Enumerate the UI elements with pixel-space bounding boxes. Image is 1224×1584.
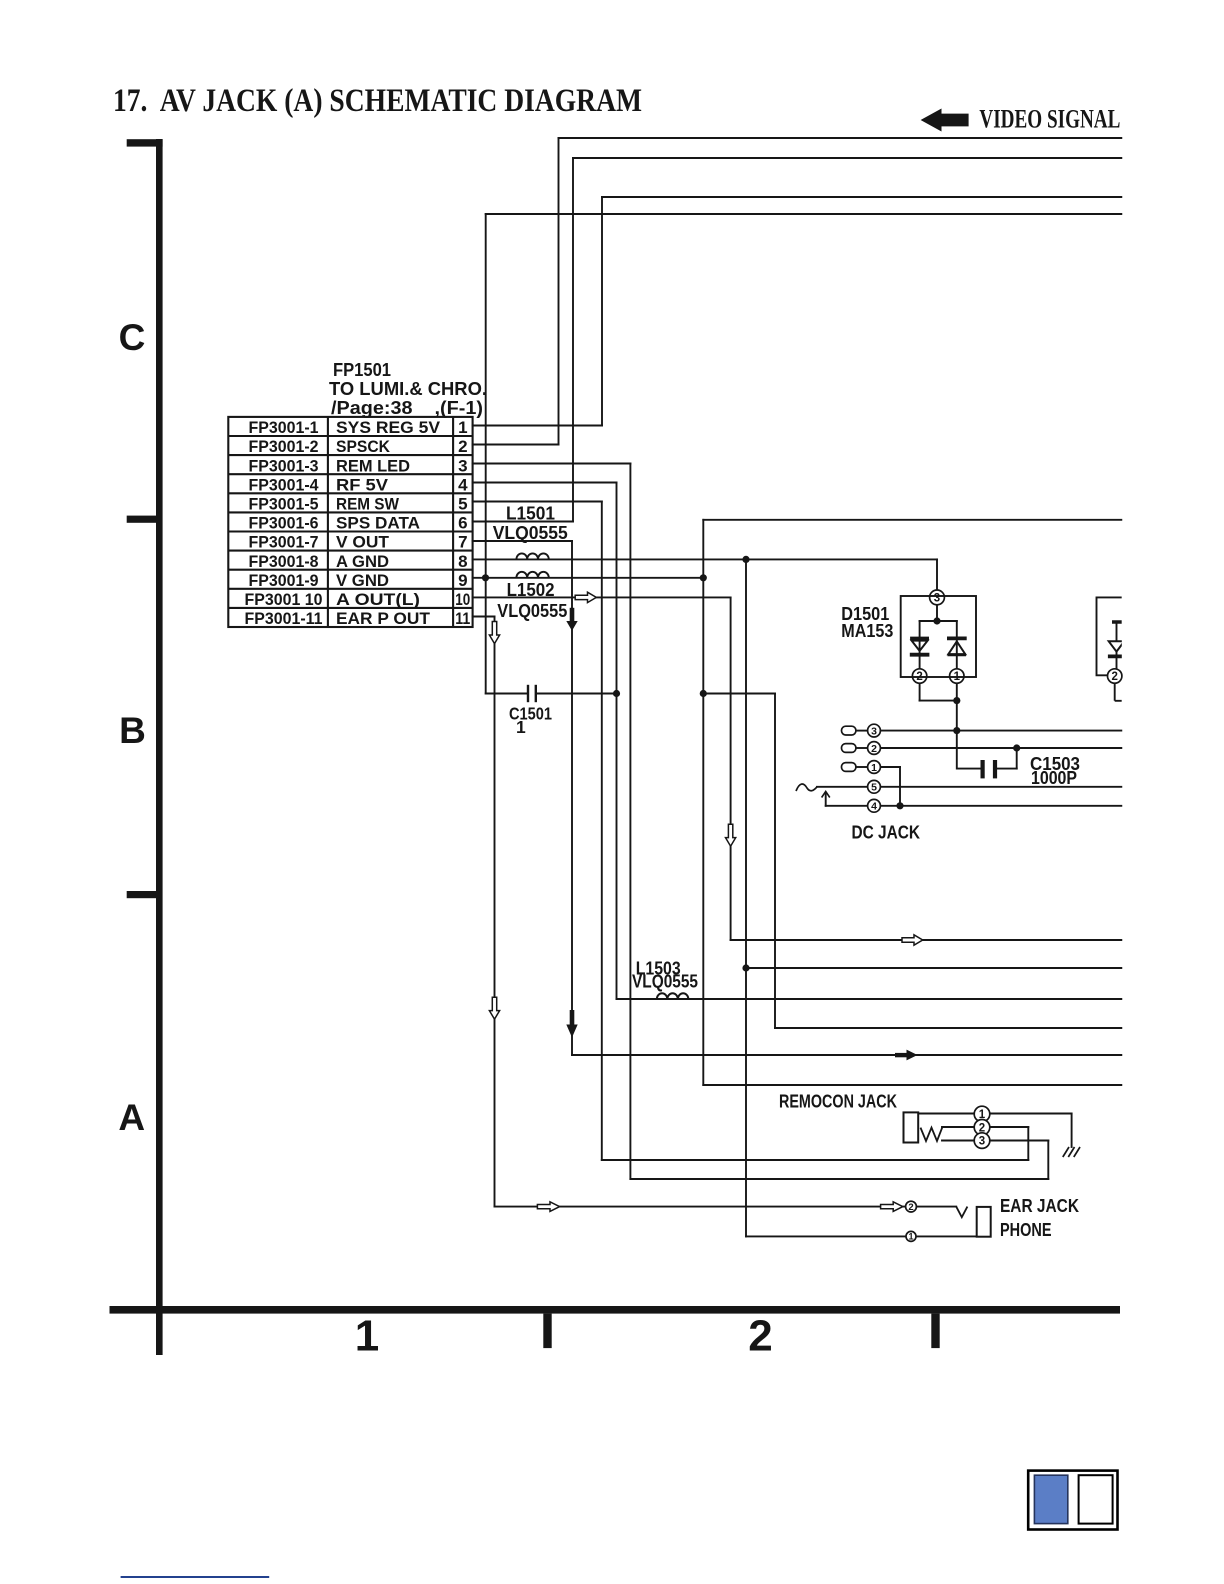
svg-text:DC JACK: DC JACK [852, 821, 921, 842]
svg-text:FP3001-5: FP3001-5 [249, 495, 319, 514]
svg-text:FP3001-7: FP3001-7 [249, 533, 319, 552]
svg-text:FP3001-2: FP3001-2 [249, 437, 319, 456]
svg-text:VLQ0555: VLQ0555 [493, 523, 568, 543]
svg-text:FP3001-4: FP3001-4 [249, 475, 319, 494]
svg-text:SPS DATA: SPS DATA [336, 514, 420, 533]
svg-text:6: 6 [458, 514, 467, 533]
svg-text:L1501: L1501 [506, 503, 555, 523]
svg-text:2: 2 [748, 1312, 772, 1361]
svg-text:V GND: V GND [336, 571, 389, 590]
svg-text:RF 5V: RF 5V [336, 475, 389, 494]
svg-text:2: 2 [1111, 671, 1117, 683]
svg-text:L1502: L1502 [507, 580, 555, 600]
svg-text:1: 1 [458, 418, 467, 437]
svg-text:9: 9 [458, 571, 467, 590]
svg-text:SYS REG 5V: SYS REG 5V [336, 418, 441, 437]
svg-text:FP3001-3: FP3001-3 [249, 456, 319, 475]
svg-text:1: 1 [516, 717, 526, 737]
svg-text:2: 2 [871, 743, 877, 755]
svg-text:FP3001 10: FP3001 10 [245, 590, 323, 609]
svg-text:FP3001-9: FP3001-9 [249, 571, 319, 590]
svg-text:8: 8 [458, 552, 467, 571]
svg-text:2: 2 [458, 437, 467, 456]
svg-text:V OUT: V OUT [336, 533, 390, 552]
svg-text:1: 1 [355, 1312, 379, 1361]
svg-text:3: 3 [979, 1136, 985, 1148]
svg-text:3: 3 [871, 725, 877, 737]
svg-text:7: 7 [458, 533, 467, 552]
svg-text:REM LED: REM LED [336, 456, 410, 475]
svg-text:PHONE: PHONE [1000, 1219, 1052, 1240]
svg-text:REM SW: REM SW [336, 495, 400, 514]
svg-text:VLQ0555: VLQ0555 [497, 601, 567, 621]
svg-text:A OUT(L): A OUT(L) [336, 590, 420, 609]
svg-text:5: 5 [871, 782, 877, 794]
svg-text:REMOCON JACK: REMOCON JACK [779, 1090, 897, 1111]
svg-text:1: 1 [908, 1232, 913, 1242]
svg-text:1: 1 [871, 762, 877, 774]
svg-text:FP1501: FP1501 [333, 359, 391, 380]
svg-text:FP3001-8: FP3001-8 [249, 552, 319, 571]
svg-text:C: C [119, 317, 146, 358]
svg-text:17. AV JACK (A) SCHEMATIC DIA: 17. AV JACK (A) SCHEMATIC DIAGRAM [113, 83, 642, 119]
svg-text:A GND: A GND [336, 552, 389, 571]
svg-text:VIDEO SIGNAL: VIDEO SIGNAL [979, 105, 1120, 134]
svg-text:VLQ0555: VLQ0555 [632, 972, 698, 992]
svg-text:MA153: MA153 [841, 621, 893, 641]
svg-text:FP3001-6: FP3001-6 [249, 514, 319, 533]
svg-text:EAR JACK: EAR JACK [1000, 1195, 1080, 1216]
svg-text:3: 3 [934, 593, 940, 605]
svg-text:11: 11 [455, 609, 470, 628]
svg-text:TO LUMI.& CHRO.: TO LUMI.& CHRO. [329, 378, 487, 399]
svg-text:EAR P OUT: EAR P OUT [336, 609, 431, 628]
svg-text:3: 3 [458, 456, 467, 475]
svg-text:/Page:38 ,(F-1): /Page:38 ,(F-1) [331, 397, 483, 418]
svg-text:5: 5 [458, 495, 467, 514]
svg-text:FP3001-11: FP3001-11 [245, 609, 323, 628]
svg-text:2: 2 [908, 1202, 913, 1213]
svg-text:4: 4 [458, 475, 468, 494]
svg-text:B: B [119, 710, 146, 751]
svg-text:10: 10 [455, 590, 470, 609]
svg-text:A: A [118, 1097, 145, 1138]
svg-text:4: 4 [871, 801, 877, 813]
svg-text:1000P: 1000P [1031, 768, 1077, 788]
svg-text:FP3001-1: FP3001-1 [249, 418, 319, 437]
svg-text:SPSCK: SPSCK [336, 437, 391, 456]
